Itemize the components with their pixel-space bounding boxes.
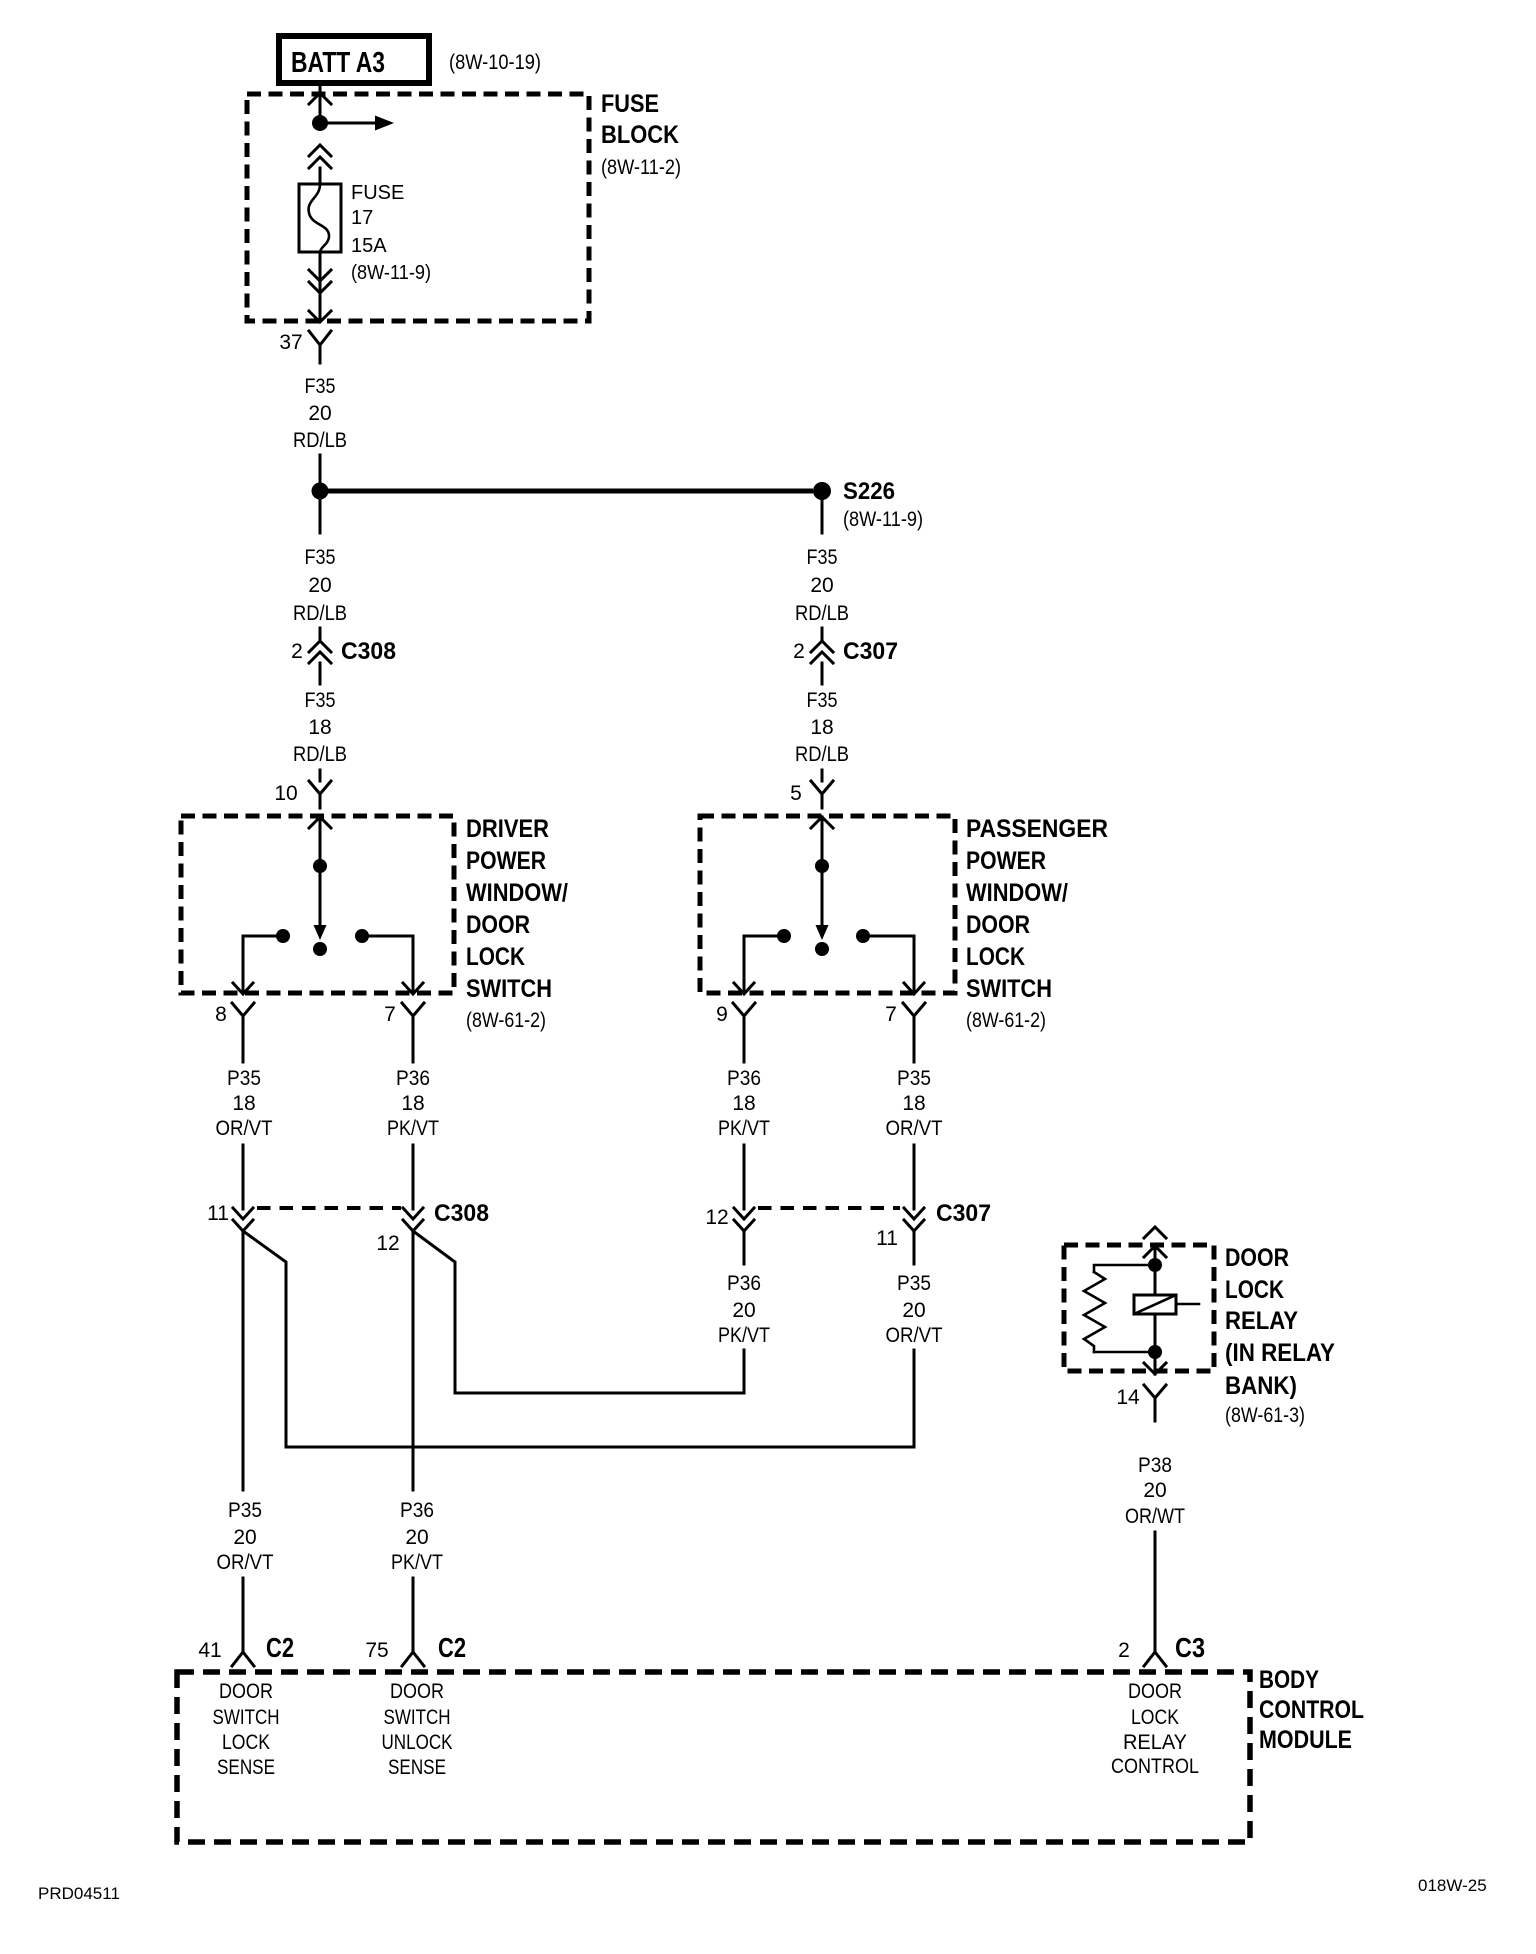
svg-text:C2: C2 [266,1632,294,1663]
door lock relay name label [1225,1244,1335,1427]
svg-text:POWER: POWER [966,847,1046,875]
svg-text:12: 12 [376,1232,399,1255]
svg-text:F35: F35 [305,546,336,569]
svg-text:C308: C308 [434,1200,489,1227]
svg-text:OR/VT: OR/VT [886,1324,943,1347]
svg-text:20: 20 [233,1526,256,1549]
svg-text:2: 2 [793,640,805,663]
fuse block name label [601,90,681,179]
relay coil element [1134,1295,1199,1314]
driver switch junction dot [313,859,327,873]
connector C307 pin 12 chevrons [734,1208,754,1231]
exit arrow driver pin 8 [233,983,253,994]
wire BATT A3 to junction [319,84,322,123]
pin 7 connector (passenger) [903,1003,925,1034]
exit arrow through fuse block bottom edge [309,311,331,322]
wire to BCM pin 41 [242,1578,245,1651]
svg-text:MODULE: MODULE [1259,1726,1352,1754]
svg-text:PK/VT: PK/VT [391,1551,443,1574]
resistor (relay coil suppression) [1084,1272,1105,1352]
driver power window/door lock switch box [181,816,454,993]
wire P35 to crossover [913,1350,916,1447]
svg-text:OR/WT: OR/WT [1125,1505,1185,1528]
connector C308 pin 12 chevrons [403,1208,423,1231]
svg-text:PK/VT: PK/VT [387,1117,439,1140]
wire to BCM pin 75 [412,1578,415,1651]
fuse 17 15A [299,184,341,252]
svg-text:20: 20 [1143,1479,1166,1502]
pin 7 connector (driver) [402,1003,424,1034]
wire label F35 20 RD/LB (right branch) [795,546,849,625]
pin 10 connector (driver switch) [309,770,331,808]
pin 5 connector (passenger switch) [811,770,833,808]
svg-text:7: 7 [885,1003,897,1026]
wire C308 pin 12 to BCM pin 75 (upper part) [412,1231,415,1490]
wire C307 pin 11 down [913,1231,916,1264]
passenger switch lock contact wire [744,936,784,993]
pin 37 connector [309,331,331,363]
resistor bottom lead [1094,1351,1155,1354]
connector C307 dashed line [758,1206,900,1210]
exit arrow driver pin 7 [403,983,423,994]
pin 9 connector [733,1003,755,1034]
svg-text:P35: P35 [228,1499,262,1522]
svg-text:11: 11 [876,1227,898,1250]
svg-text:18: 18 [732,1092,755,1115]
relay coil to bottom junction [1154,1314,1157,1374]
battery feed box BATT A3 [279,36,429,83]
svg-text:37: 37 [279,331,302,354]
branch wire from C308 pin 11 [243,1231,286,1447]
svg-text:SENSE: SENSE [217,1756,275,1779]
body control module name label [1259,1666,1364,1754]
junction dot A [312,483,329,500]
wire label F35 20 RD/LB (left branch) [293,546,347,625]
wire C308 pin 11 to BCM pin 41 (upper part) [242,1231,245,1490]
driver switch lock contact dot [276,929,290,943]
svg-text:LOCK: LOCK [222,1731,270,1754]
svg-text:DOOR: DOOR [466,911,530,939]
wire label F35 18 RD/LB (left) [293,689,347,766]
svg-text:FUSE: FUSE [351,182,404,204]
svg-text:18: 18 [902,1092,925,1115]
svg-text:OR/VT: OR/VT [886,1117,943,1140]
wire to C307 pin 11 [913,1145,916,1209]
wire label P35 20 OR/VT (to BCM) [217,1499,274,1574]
connector C308 pin 11 chevrons [233,1208,253,1231]
wire P36 to crossover [743,1350,746,1393]
svg-text:RD/LB: RD/LB [293,429,347,452]
svg-text:WINDOW/: WINDOW/ [466,879,568,907]
wire to junction A [319,455,322,483]
wire label P36 20 PK/VT (to BCM) [391,1499,443,1574]
svg-text:P35: P35 [897,1067,931,1090]
svg-text:(8W-61-2): (8W-61-2) [466,1009,546,1032]
svg-text:P36: P36 [727,1067,761,1090]
arrow into relay box [1144,1246,1166,1257]
pin 14 connector [1144,1385,1166,1421]
svg-text:C307: C307 [843,638,898,665]
svg-text:(8W-61-3): (8W-61-3) [1225,1404,1305,1427]
svg-text:DOOR: DOOR [219,1680,273,1703]
wire passenger pin 7 down [913,1034,916,1062]
svg-text:CONTROL: CONTROL [1259,1696,1364,1724]
svg-text:18: 18 [232,1092,255,1115]
svg-text:C308: C308 [341,638,396,665]
svg-text:PASSENGER: PASSENGER [966,815,1108,843]
connector C307 pin 11 chevrons [904,1208,924,1231]
svg-text:15A: 15A [351,235,387,257]
arrow into passenger switch box [811,817,833,828]
passenger switch unlock contact dot [856,929,870,943]
svg-text:7: 7 [384,1003,396,1026]
wire relay to BCM pin 2 [1154,1532,1157,1651]
svg-text:LOCK: LOCK [466,943,525,971]
wire label F35 20 RD/LB (fuse output) [293,375,347,452]
arrow into driver switch box [309,817,331,828]
relay bottom junction dot [1148,1345,1162,1359]
wire chevron to fuse [319,168,322,184]
wire fuse to exit [319,252,322,321]
wire below splice S226 [821,500,824,533]
driver switch lock contact wire [243,936,283,993]
svg-text:SENSE: SENSE [388,1756,446,1779]
svg-text:C3: C3 [1175,1632,1205,1663]
svg-text:14: 14 [1116,1386,1140,1409]
wire label P36 18 PK/VT (passenger) [718,1067,770,1140]
svg-text:P38: P38 [1138,1454,1172,1477]
svg-text:RD/LB: RD/LB [795,743,849,766]
wire junction A to splice S226 [320,489,813,494]
svg-text:F35: F35 [305,375,336,398]
svg-text:RELAY: RELAY [1225,1307,1298,1335]
svg-text:BLOCK: BLOCK [601,121,679,149]
wire label P35 18 OR/VT (driver) [216,1067,273,1140]
connector C308 dashed line [257,1206,401,1210]
svg-text:RD/LB: RD/LB [293,743,347,766]
connector chevron above door lock relay [1144,1227,1166,1238]
wire below junction A [319,499,322,533]
svg-text:RD/LB: RD/LB [795,602,849,625]
door lock relay dashed box [1064,1245,1214,1371]
svg-text:FUSE: FUSE [601,90,659,118]
driver switch name label [466,815,568,1032]
svg-text:41: 41 [198,1639,221,1662]
svg-text:OR/VT: OR/VT [217,1551,274,1574]
svg-text:8: 8 [215,1003,227,1026]
svg-text:(8W-11-9): (8W-11-9) [843,508,923,531]
svg-text:S226: S226 [843,478,895,505]
crossover wire driver 11 to passenger 11 [286,1446,914,1449]
svg-text:CONTROL: CONTROL [1111,1755,1199,1778]
svg-text:75: 75 [365,1639,388,1662]
connector C307 pin 2 [811,628,833,684]
svg-text:P36: P36 [727,1272,761,1295]
fuse block dashed box [247,94,589,321]
svg-text:10: 10 [274,782,297,805]
passenger switch unlock contact wire [863,936,914,993]
svg-text:20: 20 [308,402,331,425]
svg-text:P36: P36 [400,1499,434,1522]
branch wire from C308 pin 12 [413,1231,455,1393]
svg-text:OR/VT: OR/VT [216,1117,273,1140]
svg-text:DRIVER: DRIVER [466,815,549,843]
svg-text:(8W-11-2): (8W-11-2) [601,156,681,179]
svg-text:RD/LB: RD/LB [293,602,347,625]
svg-text:LOCK: LOCK [1225,1276,1284,1304]
wire label P36 20 PK/VT [718,1272,770,1347]
connector C308 pin 2 [309,628,331,684]
wire label P35 20 OR/VT [886,1272,943,1347]
BCM output label door lock relay control [1111,1680,1199,1778]
svg-text:20: 20 [810,574,833,597]
passenger switch junction dot [815,859,829,873]
passenger switch name label [966,815,1108,1032]
wire driver pin 7 down [412,1034,415,1062]
svg-text:UNLOCK: UNLOCK [382,1731,453,1754]
connector chevrons below fuse [309,270,331,293]
svg-text:20: 20 [405,1526,428,1549]
splice S226 labels [843,478,923,531]
svg-text:18: 18 [401,1092,424,1115]
BCM pin 41 connector [232,1652,254,1666]
svg-text:20: 20 [732,1299,755,1322]
svg-text:PRD04511: PRD04511 [38,1884,120,1903]
svg-text:(8W-10-19): (8W-10-19) [449,51,541,74]
wire C307 pin 12 down [743,1231,746,1264]
passenger switch common contact dot [815,942,829,956]
svg-text:PK/VT: PK/VT [718,1324,770,1347]
wire driver pin 8 down [242,1034,245,1062]
resistor top lead [1094,1265,1155,1272]
connector chevrons above fuse [309,145,331,168]
svg-text:F35: F35 [807,546,838,569]
svg-text:PK/VT: PK/VT [718,1117,770,1140]
exit arrow passenger pin 7 [904,983,924,994]
passenger switch wiper arrowhead [816,925,829,940]
passenger switch lock contact dot [777,929,791,943]
BCM input label door switch lock sense [213,1680,280,1779]
svg-text:P35: P35 [227,1067,261,1090]
exit arrow relay box bottom [1144,1363,1166,1374]
svg-text:BODY: BODY [1259,1666,1319,1694]
svg-text:WINDOW/: WINDOW/ [966,879,1068,907]
svg-text:LOCK: LOCK [966,943,1025,971]
relay feed wire [1154,1246,1157,1295]
driver switch common wire [319,817,322,927]
body control module dashed box [177,1672,1250,1842]
svg-text:2: 2 [1118,1639,1130,1662]
passenger power window/door lock switch box [700,816,955,993]
svg-text:SWITCH: SWITCH [966,975,1052,1003]
svg-text:C2: C2 [438,1632,466,1663]
svg-text:F35: F35 [305,689,336,712]
svg-text:20: 20 [308,574,331,597]
svg-text:(IN RELAY: (IN RELAY [1225,1339,1335,1367]
arrow into fuse block top edge [309,93,331,104]
svg-text:SWITCH: SWITCH [466,975,552,1003]
wire to C308 pin 12 [412,1145,415,1209]
svg-text:(8W-11-9): (8W-11-9) [351,262,431,284]
svg-text:DOOR: DOOR [1128,1680,1182,1703]
arrow feed to other circuits [320,116,394,131]
svg-text:(8W-61-2): (8W-61-2) [966,1009,1046,1032]
crossover wire driver 12 to passenger 12 [455,1392,744,1395]
BCM pin 75 connector [402,1652,424,1666]
svg-text:5: 5 [790,782,802,805]
svg-text:2: 2 [291,640,303,663]
driver switch unlock contact dot [355,929,369,943]
exit arrow passenger pin 9 [734,983,754,994]
relay top junction dot [1148,1258,1162,1272]
svg-text:POWER: POWER [466,847,546,875]
svg-text:C307: C307 [936,1200,991,1227]
svg-text:BANK): BANK) [1225,1372,1297,1400]
svg-text:20: 20 [902,1299,925,1322]
svg-text:DOOR: DOOR [390,1680,444,1703]
pin 8 connector [232,1003,254,1034]
svg-text:DOOR: DOOR [1225,1244,1289,1272]
svg-text:P36: P36 [396,1067,430,1090]
junction dot in fuse block [312,115,328,131]
svg-text:9: 9 [716,1003,728,1026]
svg-text:SWITCH: SWITCH [213,1706,280,1729]
svg-text:18: 18 [810,716,833,739]
svg-text:P35: P35 [897,1272,931,1295]
splice S226 dot [813,482,831,500]
driver switch unlock contact wire [362,936,413,993]
BCM input label door switch unlock sense [382,1680,453,1779]
driver switch common contact dot [313,942,327,956]
driver switch wiper arrowhead [314,925,327,940]
svg-text:11: 11 [207,1202,229,1225]
BCM pin 2 connector [1144,1652,1166,1666]
wire passenger pin 9 down [743,1034,746,1062]
svg-text:18: 18 [308,716,331,739]
svg-text:LOCK: LOCK [1131,1706,1179,1729]
svg-text:BATT A3: BATT A3 [291,47,385,79]
wire to C307 pin 12 [743,1145,746,1209]
wire label F35 18 RD/LB (right) [795,689,849,766]
svg-text:018W-25: 018W-25 [1418,1876,1487,1895]
svg-text:RELAY: RELAY [1123,1731,1187,1754]
wire label P35 18 OR/VT (passenger) [886,1067,943,1140]
svg-text:SWITCH: SWITCH [384,1706,451,1729]
wire to C308 pin 11 [242,1145,245,1209]
fuse value labels [351,182,431,284]
wire label P38 20 OR/WT [1125,1454,1185,1528]
svg-text:12: 12 [705,1206,728,1229]
svg-text:17: 17 [351,207,373,229]
svg-text:F35: F35 [807,689,838,712]
passenger switch common wire [821,817,824,927]
svg-text:DOOR: DOOR [966,911,1030,939]
wire label P36 18 PK/VT (driver) [387,1067,439,1140]
